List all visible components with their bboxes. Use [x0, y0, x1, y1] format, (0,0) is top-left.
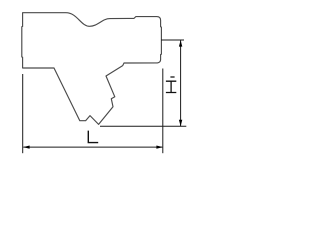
- strainer body outline: [22, 13, 162, 125]
- dimension line L: [23, 146, 162, 148]
- extension line bottom (H1): [100, 125, 186, 127]
- extension line top (H1): [161, 39, 184, 41]
- arrow H1 bottom: [179, 120, 182, 126]
- extension line left (L): [22, 74, 24, 153]
- Y-strainer outline technical drawing with L and H1 dimensions: [0, 0, 200, 157]
- extension line right (L): [162, 69, 164, 154]
- arrow H1 top: [179, 40, 182, 46]
- label L: [88, 131, 98, 143]
- label H1 (rotated): [166, 77, 176, 93]
- dimension line H1: [180, 41, 182, 127]
- arrow L right: [156, 146, 162, 149]
- arrow L left: [23, 146, 29, 149]
